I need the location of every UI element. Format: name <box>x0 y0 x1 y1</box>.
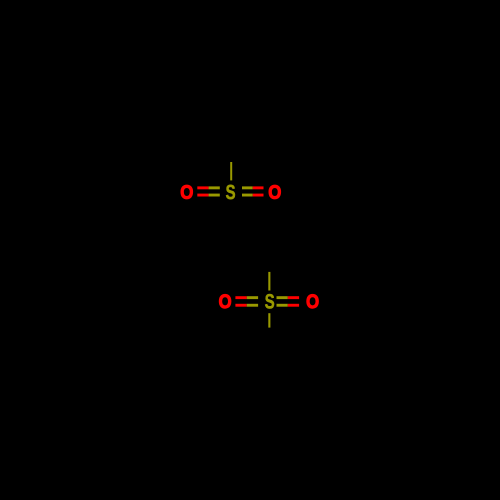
wire: S1=O1 double bond left, line 2 <box>197 194 208 197</box>
wire: methyl C1-S1 half-bond (olive, above S1) <box>230 162 232 180</box>
node O1 (left oxygen, top sulfonyl) <box>180 185 193 200</box>
node O3 (left oxygen, bottom sulfonyl) <box>219 294 232 309</box>
wire: C2-S2 half-bond (olive, above S2) <box>268 272 270 291</box>
node S1 (sulfur, top sulfonyl) <box>226 185 235 200</box>
wire: S2=O4 double bond right, line 2 <box>277 304 288 307</box>
wire: S1=O1 double bond left, line 1 (red O-half then olive S-half) <box>197 186 208 189</box>
wire: S2=O4 double bond right, line 1 (olive S-half then red O-half) <box>277 296 288 299</box>
wire: S2=O3 double bond left, line 1 (red O-half then olive S-half) <box>235 296 246 299</box>
node S2 (sulfur, bottom sulfonyl) <box>265 294 274 309</box>
wire: S1=O2 double bond right, line 1 (olive S-half then red O-half) <box>242 186 253 189</box>
node O4 (right oxygen, bottom sulfonyl) <box>306 294 319 309</box>
wire: methyl C3-S2 half-bond (olive, below S2) <box>268 313 270 327</box>
wire: S1=O2 double bond right, line 2 <box>242 194 253 197</box>
wire: S2=O3 double bond left, line 2 <box>235 304 246 307</box>
node O2 (right oxygen, top sulfonyl) <box>268 185 281 200</box>
